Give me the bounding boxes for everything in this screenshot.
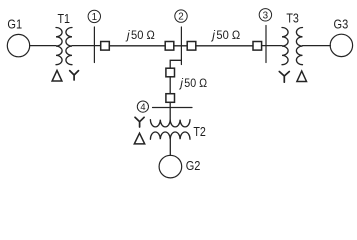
wye symbol under T1 (70, 71, 79, 80)
transformer T2 primary winding (150, 120, 190, 127)
wire X4 to T3 (262, 45, 282, 47)
reactance square X3 (187, 42, 196, 51)
svg-text:G3: G3 (334, 18, 349, 32)
svg-text:50 Ω: 50 Ω (131, 28, 155, 42)
generator G3 (330, 34, 352, 56)
wire elbow node 2 down-branch (170, 60, 181, 68)
transformer T2 secondary winding (150, 132, 190, 139)
generator G1 (7, 34, 29, 56)
reactance square X1 (101, 42, 110, 51)
delta symbol under T3 (297, 71, 307, 82)
svg-text:50 Ω: 50 Ω (216, 28, 240, 42)
wire X2 to X3 (174, 45, 187, 47)
svg-text:G1: G1 (7, 18, 22, 32)
svg-text:3: 3 (263, 10, 269, 21)
transformer T1 secondary winding (66, 28, 72, 65)
svg-text:50 Ω: 50 Ω (184, 76, 207, 90)
reactance square X4 (253, 42, 262, 51)
wire T2 to G2 (169, 139, 171, 155)
svg-text:G2: G2 (186, 159, 201, 173)
delta symbol at T2 (134, 133, 144, 144)
transformer T1 primary winding (56, 28, 62, 65)
bus node 4 (153, 107, 193, 109)
reactance square X6 (166, 94, 175, 103)
svg-text:T2: T2 (193, 125, 206, 139)
svg-text:T1: T1 (58, 12, 71, 26)
wire X6 to T2 (169, 102, 171, 119)
svg-text:4: 4 (140, 102, 145, 112)
wire T1 to node 1 (72, 45, 101, 47)
node 3 circle (259, 9, 271, 21)
delta symbol under T1 (52, 70, 62, 81)
transformer T3 secondary winding (296, 28, 302, 65)
svg-text:2: 2 (178, 12, 183, 23)
bus node 1 (93, 27, 95, 63)
reactance square X2 (165, 42, 174, 51)
bus node 2 (180, 27, 182, 65)
wire node 2 to node 3 (196, 45, 253, 47)
wire node 1 to node 2 (109, 45, 165, 47)
wire T3 to G3 (303, 45, 331, 47)
wye symbol at T2 (135, 117, 144, 127)
wire X5 to X6 (169, 77, 171, 94)
node 1 circle (88, 10, 100, 22)
node 4 circle (137, 101, 148, 112)
svg-text:T3: T3 (286, 12, 299, 26)
wye symbol under T3 (279, 72, 289, 83)
node 2 circle (175, 10, 187, 22)
svg-text:1: 1 (92, 12, 97, 23)
wire G1 to T1 (30, 45, 56, 47)
bus node 3 (265, 26, 267, 63)
reactance square X5 (166, 68, 175, 77)
generator G2 (159, 155, 182, 178)
transformer T3 primary winding (282, 28, 288, 65)
